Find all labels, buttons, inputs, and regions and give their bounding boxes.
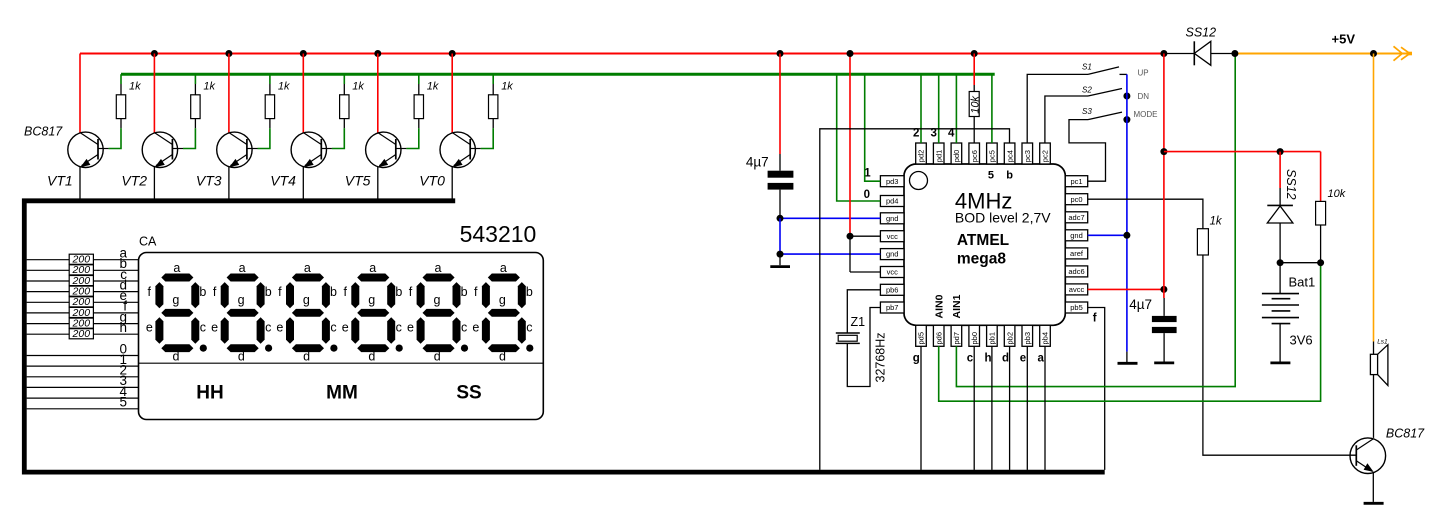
wire resistor RVT4 top lead — [343, 84, 345, 95]
speaker Ls1 — [1370, 345, 1388, 386]
wire avcc drop (red) — [1163, 54, 1165, 290]
diode D2 SS12 — [1267, 205, 1293, 223]
wire gnd link (blue) — [779, 218, 781, 254]
svg-text:10k: 10k — [1328, 188, 1346, 200]
wire pd7 to rail after diode (green) — [956, 54, 1235, 387]
svg-text:pd5: pd5 — [917, 332, 926, 345]
wire VT4 base (green) — [332, 128, 344, 148]
svg-text:HH: HH — [196, 383, 223, 404]
wire battery top — [1279, 263, 1281, 294]
junction battery/diode2 — [1277, 259, 1284, 266]
pin pb5 (MCU right) — [1065, 302, 1087, 313]
display digit 5 (7-segment) — [146, 261, 207, 364]
junction vcc — [847, 233, 854, 240]
pin pb6 (MCU left) — [880, 284, 904, 295]
wire pd5 net g to bus — [920, 346, 922, 470]
resistor R-base 1k — [1197, 229, 1208, 255]
resistor 200 (segment e) — [69, 297, 93, 307]
svg-text:0: 0 — [864, 189, 870, 201]
display digit 2 (7-segment) — [342, 261, 403, 364]
wire switch common to ground (blue) — [1126, 74, 1128, 351]
wire resistor RVT2 bottom lead — [194, 119, 196, 129]
svg-text:pc5: pc5 — [988, 150, 997, 162]
resistor R-reset 10k — [969, 92, 979, 117]
pin pd6 (MCU bottom) — [933, 325, 944, 346]
pin pc3 (MCU top) — [1022, 143, 1033, 164]
wire battery branch (red) — [1164, 151, 1321, 153]
pin pb7 (MCU left) — [880, 302, 904, 313]
battery Bat1 3V6 — [1262, 294, 1299, 324]
svg-text:BC817: BC817 — [1386, 426, 1425, 440]
wire display segment b — [27, 269, 139, 271]
wire RVT5 to green bus — [418, 74, 420, 84]
wire VT0 emitter to bus — [451, 167, 453, 200]
wire display digit 3 — [27, 386, 139, 388]
svg-text:pd7: pd7 — [952, 332, 961, 345]
resistor RVT5 1k — [414, 95, 423, 119]
wire display segment e — [27, 301, 139, 303]
wire RVT4 to green bus — [343, 74, 345, 84]
svg-text:pb7: pb7 — [886, 303, 899, 312]
pin pd1 (MCU top) — [933, 143, 944, 164]
display module body — [139, 253, 544, 420]
wire VT3 collector (red) — [228, 54, 230, 133]
wire reset pullup top lead — [973, 85, 975, 92]
wire VT2 collector (red) — [153, 54, 155, 133]
pin adc6 (MCU right) — [1065, 266, 1087, 277]
svg-text:pb4: pb4 — [1041, 332, 1050, 345]
resistor 200 (segment g) — [69, 318, 93, 328]
svg-text:S1: S1 — [1082, 63, 1092, 72]
resistor RVT1 1k — [116, 95, 125, 119]
junction rail/VT4 — [300, 50, 307, 57]
svg-text:VT2: VT2 — [121, 173, 147, 189]
wire pb4 net a to bus — [1044, 346, 1046, 470]
wire resistor RVT0 top lead — [492, 84, 494, 95]
svg-text:e: e — [1020, 353, 1026, 365]
svg-text:adc6: adc6 — [1068, 267, 1084, 276]
wire 1k to Q-buzzer base — [1203, 255, 1356, 455]
wire resistor RVT2 top lead — [194, 84, 196, 95]
svg-text:1k: 1k — [278, 81, 290, 93]
wire pc3 to switch S1 — [1027, 74, 1088, 143]
wire VT4 collector (red) — [302, 54, 304, 133]
svg-text:3V6: 3V6 — [1290, 332, 1313, 347]
wire VT2 base (green) — [183, 128, 195, 148]
resistor RVT2 1k — [191, 95, 200, 119]
wire to diode2 (black) — [1279, 188, 1281, 205]
wire display segment g — [27, 323, 139, 325]
wire pb0 net c to bus — [973, 346, 975, 470]
svg-text:DN: DN — [1138, 92, 1150, 101]
pin pc1 (MCU right) — [1065, 176, 1087, 187]
wire pd4 to green bus (net 0) — [837, 74, 881, 201]
resistor 200 (segment c) — [69, 276, 93, 286]
wire pd0 to green bus (net 4) — [955, 74, 957, 143]
pin gnd (MCU left) — [880, 213, 904, 224]
svg-text:32768Hz: 32768Hz — [874, 332, 888, 382]
wire pc5 to green bus (net 5) — [991, 74, 993, 143]
wire 10k battery (red) — [1320, 152, 1322, 202]
wire pd2 to green bus (net 2) — [920, 74, 922, 143]
junction gnd2 — [777, 251, 784, 258]
pin pd4 (MCU left) — [880, 196, 904, 207]
diode D1 SS12 — [1194, 41, 1235, 65]
svg-text:4µ7: 4µ7 — [1129, 297, 1152, 312]
transistor VT4 BC817 — [291, 132, 332, 167]
svg-text:pd3: pd3 — [886, 177, 899, 186]
ground (C2) — [1154, 361, 1174, 364]
wire VT0 collector (red) — [451, 54, 453, 133]
resistor 200 (segment f) — [69, 307, 93, 317]
wire VT2 emitter to bus — [153, 167, 155, 200]
wire pc4 net b to black bus — [820, 129, 1010, 470]
wire pd1 to green bus (net 3) — [938, 74, 940, 143]
wire display digit 1 — [27, 365, 139, 367]
svg-text:pb5: pb5 — [1070, 303, 1083, 312]
wire VT1 base (green) — [109, 128, 121, 148]
svg-text:VT3: VT3 — [196, 173, 222, 189]
svg-text:gnd: gnd — [886, 214, 899, 223]
svg-text:ATMEL: ATMEL — [957, 232, 1009, 249]
wire display segment d — [27, 291, 139, 293]
pin pb0 (MCU bottom) — [969, 325, 980, 346]
svg-text:VT5: VT5 — [345, 173, 371, 189]
MCU pin-1 marker circle — [910, 172, 928, 190]
svg-text:a: a — [1038, 353, 1045, 365]
resistor 200 (segment d) — [69, 286, 93, 296]
svg-text:mega8: mega8 — [957, 251, 1006, 268]
node +5V arrow — [1394, 46, 1403, 60]
transistor VT3 BC817 — [217, 132, 258, 167]
svg-text:vcc: vcc — [887, 268, 899, 277]
wire pb3 net e to bus — [1026, 346, 1028, 470]
wire VT5 emitter to bus — [377, 167, 379, 200]
wire resistor RVT3 bottom lead — [269, 119, 271, 129]
wire VT3 emitter to bus — [228, 167, 230, 200]
pin pd0 (MCU top) — [951, 143, 962, 164]
wire avcc feed (red) — [1088, 288, 1164, 290]
junction rail/avcc drop — [1160, 50, 1167, 57]
junction rail/VT3 — [225, 50, 232, 57]
svg-text:pb6: pb6 — [886, 285, 899, 294]
svg-text:adc7: adc7 — [1068, 213, 1084, 222]
pin pd2 (MCU top) — [916, 143, 927, 164]
transistor VT5 BC817 — [366, 132, 407, 167]
junction S3/gnd line — [1123, 116, 1130, 123]
wire display segment a — [27, 259, 139, 261]
switch S2 DN — [1088, 89, 1122, 97]
wire vcc pin1 — [850, 235, 880, 237]
wire C1 top lead — [779, 154, 781, 171]
svg-text:gnd: gnd — [886, 250, 899, 259]
svg-text:vcc: vcc — [887, 232, 899, 241]
junction rail/vcc drop — [847, 50, 854, 57]
wire vcc link — [849, 236, 851, 272]
wire pb6 to crystal — [847, 290, 880, 333]
display divider line — [139, 362, 544, 364]
pin pd7 (MCU bottom) — [951, 325, 962, 346]
svg-text:10k: 10k — [970, 96, 982, 114]
display digit 1 (7-segment) — [407, 261, 468, 364]
wire avcc to C2 (red stub) — [1163, 289, 1165, 298]
bus display wiring (thick black) — [24, 201, 1104, 472]
resistor RVT4 1k — [340, 95, 349, 119]
pin pb2 (MCU bottom) — [1004, 325, 1015, 346]
pin avcc (MCU right) — [1065, 284, 1087, 295]
svg-text:avcc: avcc — [1069, 285, 1085, 294]
wire pc1 to switch S3 — [1069, 120, 1106, 182]
svg-text:1k: 1k — [129, 81, 141, 93]
pin aref (MCU right) — [1065, 248, 1087, 259]
svg-text:pc6: pc6 — [970, 150, 979, 162]
wire resistor RVT5 bottom lead — [418, 119, 420, 129]
wire display digit 5 — [27, 408, 139, 410]
wire gnd pin1 (blue) — [780, 217, 880, 219]
capacitor C2 4u7 — [1152, 316, 1177, 333]
wire reset pullup bottom — [973, 117, 975, 144]
pin vcc (MCU left) — [880, 267, 904, 278]
svg-text:VT0: VT0 — [419, 173, 445, 189]
pin vcc (MCU left) — [880, 231, 904, 242]
svg-text:Bat1: Bat1 — [1289, 275, 1316, 290]
svg-text:pc1: pc1 — [1070, 177, 1082, 186]
transistor VT1 BC817 — [68, 132, 109, 167]
svg-text:SS12: SS12 — [1284, 169, 1298, 200]
wire speaker to Q collector — [1373, 375, 1375, 438]
wire resistor RVT1 bottom lead — [120, 119, 122, 129]
svg-text:+5V: +5V — [1332, 32, 1356, 47]
transistor VT2 BC817 — [142, 132, 183, 167]
svg-text:pc2: pc2 — [1041, 150, 1050, 162]
svg-text:pd2: pd2 — [917, 150, 926, 163]
svg-text:SS12: SS12 — [1186, 26, 1217, 40]
crystal Z1 32768Hz — [836, 333, 860, 343]
svg-text:1k: 1k — [427, 81, 439, 93]
junction branch/diode2 — [1277, 148, 1284, 155]
wire display segment h — [27, 333, 139, 335]
wire reset pullup top (red) — [973, 54, 975, 86]
svg-text:pc4: pc4 — [1005, 150, 1014, 162]
svg-text:c: c — [967, 353, 974, 365]
svg-text:S3: S3 — [1082, 107, 1092, 116]
wire display digit 2 — [27, 376, 139, 378]
junction rail/C1 drop — [777, 50, 784, 57]
bus digit-select (green) — [121, 73, 995, 76]
svg-text:f: f — [1093, 312, 1097, 324]
wire resistor RVT4 bottom lead — [343, 119, 345, 129]
ground (Q emitter) — [1364, 502, 1384, 505]
svg-text:5: 5 — [119, 395, 127, 410]
svg-text:4µ7: 4µ7 — [746, 154, 769, 169]
wire resistor RVT0 bottom lead — [492, 119, 494, 129]
svg-text:pd1: pd1 — [934, 150, 943, 163]
resistor 200 (segment h) — [69, 329, 93, 339]
switch S3 MODE — [1088, 112, 1122, 120]
wire VT4 emitter to bus — [302, 167, 304, 200]
MCU U1 ATmega8 body — [904, 164, 1065, 325]
svg-text:pc3: pc3 — [1023, 150, 1032, 162]
wire pc2 to switch S2 — [1045, 96, 1088, 143]
resistor R-bat 10k — [1316, 201, 1326, 225]
svg-text:VT4: VT4 — [270, 173, 296, 189]
svg-text:200: 200 — [72, 328, 91, 340]
wire speaker feed (orange) — [1373, 54, 1375, 342]
wire C1 bottom — [779, 190, 781, 219]
wire gnd pin2 (blue) — [780, 253, 880, 255]
ground (battery) — [1270, 361, 1290, 364]
svg-text:Ls1: Ls1 — [1377, 339, 1388, 346]
junction S2/gnd line — [1123, 93, 1130, 100]
junction rail/VT5 — [374, 50, 381, 57]
wire VT3 base (green) — [258, 128, 270, 148]
svg-text:pb3: pb3 — [1023, 332, 1032, 345]
display digit 0 (7-segment) — [472, 261, 533, 364]
wire pb1 net h to bus — [991, 346, 993, 470]
svg-text:d: d — [1002, 353, 1009, 365]
svg-text:VT1: VT1 — [47, 173, 73, 189]
wire resistor RVT5 top lead — [418, 84, 420, 95]
svg-text:543210: 543210 — [460, 221, 537, 247]
wire display segment c — [27, 280, 139, 282]
svg-text:b: b — [1006, 170, 1013, 182]
wire to diode2 (red) — [1279, 152, 1281, 188]
resistor RVT0 1k — [489, 95, 498, 119]
wire C2 bottom — [1163, 333, 1165, 361]
svg-text:MODE: MODE — [1134, 110, 1158, 119]
resistor 200 (segment b) — [69, 265, 93, 275]
pin pb3 (MCU bottom) — [1022, 325, 1033, 346]
junction avcc/red drop — [1160, 286, 1167, 293]
transistor VT0 BC817 — [440, 132, 481, 167]
wire pd3 to green bus (net 1) — [865, 74, 881, 181]
pin pc6 (MCU top) — [969, 143, 980, 164]
wire RVT0 to green bus — [492, 74, 494, 84]
wire gnd pin to ground line (blue) — [1088, 234, 1127, 236]
wire to ground stub — [1126, 352, 1128, 362]
wire vcc pin2 — [850, 271, 880, 273]
svg-text:1k: 1k — [1210, 216, 1223, 228]
svg-text:pd0: pd0 — [952, 150, 961, 163]
svg-text:pb1: pb1 — [988, 332, 997, 345]
svg-text:pd4: pd4 — [886, 197, 899, 206]
svg-text:pc0: pc0 — [1070, 195, 1082, 204]
svg-text:h: h — [985, 353, 992, 365]
svg-text:h: h — [119, 320, 127, 335]
wire C1 top (red) — [779, 54, 781, 155]
svg-text:1k: 1k — [203, 81, 215, 93]
junction avcc-branch — [1160, 148, 1167, 155]
wire RVT2 to green bus — [194, 74, 196, 84]
wire crystal to pb7 — [847, 308, 880, 387]
svg-text:UP: UP — [1138, 69, 1149, 78]
svg-text:AIN0: AIN0 — [934, 294, 946, 318]
wire rail to diode anode (black) — [1164, 53, 1194, 55]
pin pc4 (MCU top) — [1004, 143, 1015, 164]
wire junction link — [1280, 262, 1321, 264]
display digit 3 (7-segment) — [276, 261, 337, 364]
pin pb4 (MCU bottom) — [1040, 325, 1051, 346]
svg-text:pb2: pb2 — [1005, 332, 1014, 345]
wire to ground — [779, 254, 781, 265]
wire +5V rail (red) — [80, 53, 1164, 55]
switch S1 UP — [1088, 67, 1119, 75]
svg-text:1k: 1k — [352, 81, 364, 93]
junction gnd1 — [777, 215, 784, 222]
svg-text:Z1: Z1 — [851, 315, 866, 329]
wire vcc feed (red from rail) — [849, 54, 851, 237]
wire speaker stub — [1373, 342, 1375, 355]
wire display segment f — [27, 312, 139, 314]
wire 10k bottom — [1320, 225, 1322, 263]
wire Q emitter to ground — [1372, 472, 1374, 502]
wire display digit 4 — [27, 397, 139, 399]
resistor RVT3 1k — [265, 95, 274, 119]
pin gnd (MCU right) — [1065, 230, 1087, 241]
wire C2 top lead — [1163, 298, 1165, 316]
svg-text:S2: S2 — [1082, 86, 1092, 95]
pin pc2 (MCU top) — [1040, 143, 1051, 164]
wire VT5 base (green) — [406, 128, 418, 148]
svg-text:AIN1: AIN1 — [951, 294, 963, 318]
svg-text:SS: SS — [456, 383, 481, 404]
wire resistor RVT3 top lead — [269, 84, 271, 95]
junction rail/R-reset — [971, 50, 978, 57]
wire RVT3 to green bus — [269, 74, 271, 84]
svg-text:BC817: BC817 — [24, 125, 63, 139]
wire RVT1 to green bus — [120, 74, 122, 84]
wire diode2 to battery junction — [1279, 223, 1281, 263]
wire VT1 emitter to bus — [79, 167, 81, 200]
svg-text:gnd: gnd — [1070, 231, 1083, 240]
svg-text:CA: CA — [139, 234, 157, 248]
junction gnd/ground line — [1123, 232, 1130, 239]
svg-text:5: 5 — [988, 170, 994, 182]
svg-text:pb0: pb0 — [970, 332, 979, 345]
display digit 4 (7-segment) — [211, 261, 272, 364]
pin pd3 (MCU left) — [880, 176, 904, 187]
pin pd5 (MCU bottom) — [916, 325, 927, 346]
svg-text:1k: 1k — [501, 81, 513, 93]
wire pb2 net d to bus — [1009, 346, 1011, 470]
svg-text:BOD level 2,7V: BOD level 2,7V — [955, 210, 1051, 226]
junction rail/pd7 green — [1231, 50, 1238, 57]
pin pb1 (MCU bottom) — [987, 325, 998, 346]
resistor 200 (segment a) — [69, 254, 93, 264]
junction battery/10k — [1317, 259, 1324, 266]
wire pb5 net f to bus — [1088, 308, 1105, 470]
ground (C1/gnd) — [770, 265, 790, 268]
svg-text:g: g — [913, 353, 920, 365]
wire VT5 collector (red) — [377, 54, 379, 133]
wire pd6 to battery junction (green) — [939, 263, 1321, 402]
pin gnd (MCU left) — [880, 249, 904, 260]
wire pc0 to R 1k — [1088, 199, 1203, 229]
svg-text:aref: aref — [1070, 249, 1084, 258]
wire resistor RVT1 top lead — [120, 84, 122, 95]
junction rail/speaker drop — [1370, 50, 1377, 57]
pin adc7 (MCU right) — [1065, 212, 1087, 223]
wire VT1 collector (red) — [79, 54, 81, 133]
wire VT0 base (green) — [481, 128, 493, 148]
pin pc0 (MCU right) — [1065, 194, 1087, 205]
capacitor C1 4u7 — [768, 171, 794, 190]
ground (switch common) — [1118, 362, 1138, 365]
transistor Q-buzzer BC817 — [1350, 438, 1386, 474]
junction rail/VT2 — [151, 50, 158, 57]
pin pc5 (MCU top) — [987, 143, 998, 164]
wire battery bottom — [1279, 324, 1281, 362]
